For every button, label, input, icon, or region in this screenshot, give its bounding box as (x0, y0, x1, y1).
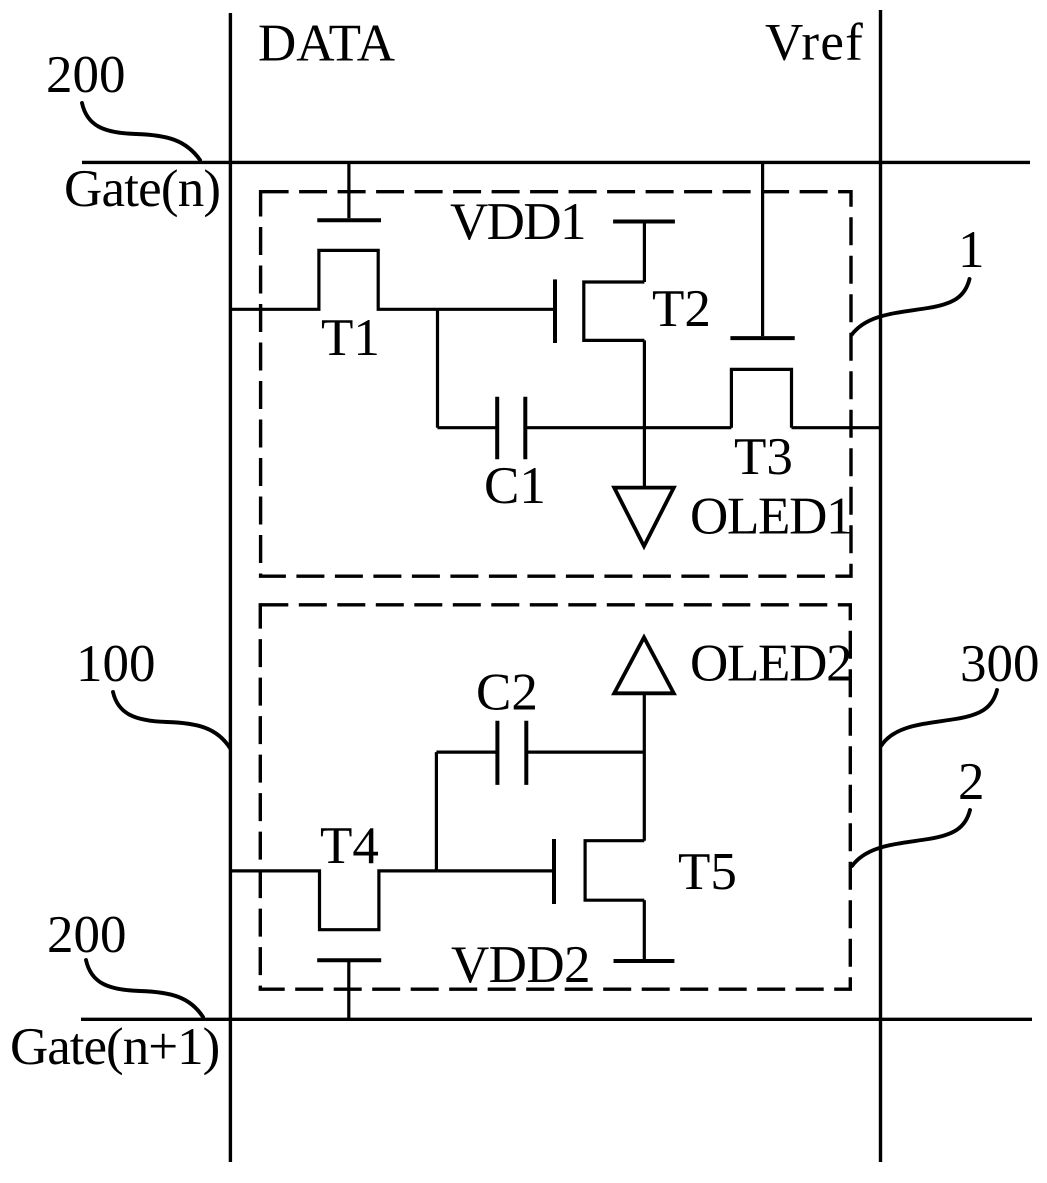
svg-text:2: 2 (958, 753, 985, 811)
transistor T5 (drive TFT of circuit 2) (554, 839, 644, 961)
svg-text:1: 1 (958, 221, 985, 279)
svg-text:300: 300 (960, 635, 1040, 693)
wire: Vref vertical bus line (879, 10, 882, 1162)
OLED2 (light emitting diode, anode symbol) (614, 637, 674, 693)
wire: DATA vertical bus line (229, 13, 232, 1162)
pixel circuit 2: dashed boundary box (260, 605, 850, 989)
leader squiggle: 200 to Gate(n+1) line (86, 960, 203, 1017)
capacitor C1 (storage capacitor) (438, 397, 732, 460)
capacitor C2 (storage capacitor of circuit 2) (436, 721, 644, 871)
svg-text:200: 200 (47, 906, 127, 964)
svg-text:Vref: Vref (765, 14, 864, 72)
pixel circuit 1: dashed boundary box (261, 192, 851, 577)
power terminal VDD1 (613, 220, 675, 224)
svg-text:VDD1: VDD1 (450, 193, 585, 251)
svg-text:T1: T1 (321, 309, 380, 367)
leader squiggle: 300 to Vref line (881, 690, 997, 746)
wire: T2 source down to OLED1 (crosses storage node line) (643, 340, 646, 489)
transistor T1 (switching TFT, gate to Gate(n)) (230, 162, 437, 309)
wire: node vertical from T1 drain down to C1 (436, 309, 439, 427)
svg-text:Gate(n+1): Gate(n+1) (10, 1018, 219, 1076)
wire: T3 source to Vref line (792, 426, 881, 429)
transistor T3 (reference TFT, gate to Gate(n)) (730, 162, 794, 427)
wire: OLED2 down to T5 drain (643, 692, 646, 841)
svg-text:C1: C1 (484, 457, 546, 515)
svg-text:100: 100 (76, 635, 156, 693)
svg-text:T3: T3 (734, 428, 793, 486)
transistor T4 (switching TFT, gate to Gate(n+1)) (230, 871, 437, 1019)
svg-text:T2: T2 (652, 280, 711, 338)
svg-text:T4: T4 (320, 817, 379, 875)
transistor T2 (drive TFT of circuit 1) (555, 222, 644, 344)
wire: T4 drain to T5 gate (438, 869, 552, 872)
svg-text:VDD2: VDD2 (451, 936, 590, 994)
svg-text:OLED1: OLED1 (690, 488, 851, 546)
leader squiggle: 1 to box 1 edge (852, 279, 970, 335)
leader squiggle: 200 to Gate(n) line (82, 103, 200, 160)
svg-text:T5: T5 (678, 843, 737, 901)
power terminal VDD2 (614, 959, 675, 963)
svg-text:DATA: DATA (258, 15, 395, 73)
svg-text:Gate(n): Gate(n) (64, 160, 220, 218)
leader squiggle: 100 to DATA line (113, 692, 230, 748)
OLED1 (light emitting diode, anode symbol) (614, 488, 674, 547)
leader squiggle: 2 to box 2 edge (852, 810, 970, 866)
wire: Gate(n+1) horizontal scan line (81, 1018, 1032, 1021)
svg-text:200: 200 (46, 46, 126, 104)
wire: Gate(n) horizontal scan line (82, 161, 1030, 164)
wire: T1 drain to T2 gate (438, 308, 554, 311)
svg-text:OLED2: OLED2 (690, 635, 851, 693)
svg-text:C2: C2 (476, 664, 538, 722)
